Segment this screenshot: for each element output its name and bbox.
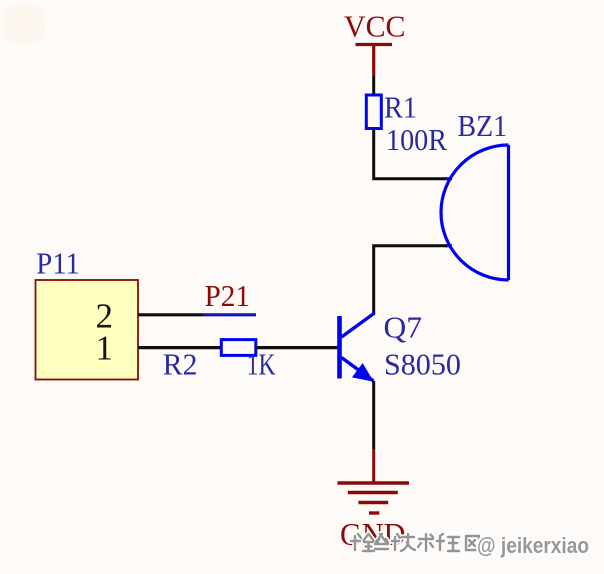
ground [338, 483, 410, 552]
transistor Q7 [340, 313, 375, 382]
wire VCC to R1 [372, 76, 375, 95]
svg-text:100R: 100R [386, 122, 447, 157]
power symbol VCC [344, 9, 406, 77]
wire emitter to ground [372, 381, 375, 449]
wire R2 to base [256, 346, 338, 349]
svg-text:Q7: Q7 [384, 310, 423, 345]
svg-text:@ jeikerxiao: @ jeikerxiao [477, 533, 589, 558]
wire buzzer lower pin to collector [374, 246, 447, 314]
connector P11 [36, 246, 139, 380]
wire pin 2 [138, 313, 203, 316]
resistor R2 [221, 340, 256, 356]
resistor R1 [366, 95, 381, 129]
svg-text:P11: P11 [36, 246, 80, 281]
watermark [351, 533, 589, 558]
svg-text:R1: R1 [384, 90, 417, 125]
svg-text:S8050: S8050 [384, 347, 461, 382]
svg-text:1K: 1K [247, 347, 276, 382]
wire pin 1 to R2 [138, 346, 222, 349]
svg-text:R2: R2 [163, 347, 198, 382]
net label wire P21 [203, 313, 256, 316]
wire R1 to buzzer upper pin [374, 129, 447, 179]
svg-text:P21: P21 [205, 278, 251, 313]
svg-text:1: 1 [96, 329, 114, 368]
buzzer BZ1 [441, 145, 509, 280]
svg-text:BZ1: BZ1 [458, 108, 508, 143]
svg-text:VCC: VCC [344, 9, 406, 44]
